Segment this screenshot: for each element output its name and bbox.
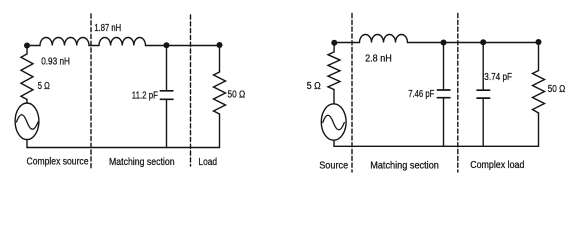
svg-text:Complex source: Complex source [27,156,89,167]
resistor 50 ohm (right load) [533,71,545,114]
svg-text:1.87 nH: 1.87 nH [94,23,121,34]
wire: left top rail to load [146,45,220,47]
node: right load junction [536,39,542,45]
wire: right top rail to load [408,42,539,44]
resistor 5 ohm (right source) [328,52,340,90]
resistor 50 ohm (left load) [214,72,226,114]
node: left source / inductor junction [24,43,30,49]
wire: left bottom rail [27,147,220,149]
wire: right load branch lower lead [538,113,540,146]
wire: right load branch upper lead [538,43,540,71]
svg-text:50 Ω: 50 Ω [228,90,246,101]
svg-text:Matching section: Matching section [370,161,439,172]
svg-text:0.93 nH: 0.93 nH [41,57,70,68]
svg-text:Load: Load [198,157,217,168]
svg-text:Matching section: Matching section [109,157,175,168]
wire: resistor to source [26,100,28,104]
wire: resistor to right source [333,90,335,104]
node: capacitor / load junction [217,42,223,48]
svg-text:Source: Source [319,161,349,172]
svg-text:7.46 pF: 7.46 pF [408,89,434,100]
wire: right source to bottom rail [333,140,335,146]
wire: between series inductors [89,45,99,47]
wire: left top rail segment [27,45,40,47]
wire: capacitor 7.46 pF lower lead [443,98,445,147]
dashed boundary: complex source / matching section [90,14,92,170]
wire: capacitor 3.74 pF lower lead [482,98,484,146]
dashed boundary: matching section / complex load (right) [457,14,459,173]
inductor 0.93 nH [40,37,89,45]
node: capacitor 3.74 pF junction [480,39,486,45]
wire: shunt capacitor lower lead [166,99,168,147]
svg-text:5 Ω: 5 Ω [307,81,321,92]
wire: shunt capacitor upper lead [166,46,168,91]
wire: right bottom rail [334,145,539,147]
svg-text:3.74 pF: 3.74 pF [484,72,512,83]
AC source (left generator) [15,103,39,140]
wire: source to bottom rail [26,140,28,148]
svg-text:2.8 nH: 2.8 nH [365,53,392,64]
capacitor 7.46 pF [437,90,450,98]
dashed boundary: source / matching section (right) [351,14,353,173]
inductor 2.8 nH [360,35,408,43]
AC source (right generator) [321,104,346,140]
capacitor 3.74 pF [477,90,490,98]
sine symbol of left source [17,115,39,130]
node: inductor / capacitor 7.46 pF junction [441,40,447,46]
wire: right top rail segment [334,42,359,44]
wire: source branch upper lead [26,46,28,55]
inductor 1.87 nH [99,37,146,45]
wire: capacitor 3.74 pF upper lead [482,43,484,91]
svg-text:5 Ω: 5 Ω [38,81,50,92]
capacitor 11.2 pF [160,91,173,100]
wire: capacitor 7.46 pF upper lead [443,43,445,91]
wire: right source branch upper lead [333,43,335,53]
resistor 5 ohm (left source) [21,54,33,100]
svg-text:Complex load: Complex load [470,160,524,171]
wire: load branch upper lead [219,46,221,73]
node: inductor / capacitor junction [164,42,170,48]
svg-text:11.2 pF: 11.2 pF [132,91,158,102]
wire: load branch lower lead [219,114,221,148]
node: right source / inductor junction [331,40,337,46]
svg-text:50 Ω: 50 Ω [548,84,566,95]
dashed boundary: matching section / load [190,15,192,166]
sine symbol of right source [323,115,345,130]
